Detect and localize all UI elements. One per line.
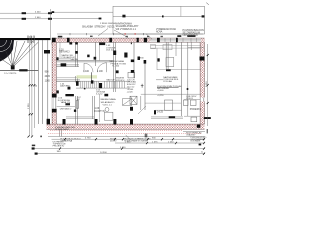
winder stair black wedge: [0, 40, 14, 62]
svg-text:+0,150: +0,150: [157, 95, 164, 97]
horizontal wall y61 left full: [57, 61, 114, 62]
black bar fixture: [166, 69, 171, 71]
svg-text:1 575: 1 575: [152, 142, 158, 144]
stair door black blob: [44, 50, 50, 54]
small dim texts bottom: [57, 138, 204, 155]
corridor post: [99, 83, 102, 88]
interior wall x76.5: [76, 43, 78, 125]
svg-text:OBYVACI: OBYVACI: [59, 51, 70, 54]
post on x145 wall: [144, 60, 147, 64]
bottom dim line 2b right: [115, 142, 205, 144]
svg-text:TL. 100: TL. 100: [112, 65, 120, 67]
small gray marks above wall: [90, 36, 163, 38]
right margin dim line: [207, 44, 209, 126]
text block under wall left: [55, 126, 75, 131]
radiator blob left wall: [56, 57, 58, 60]
small fixture rect: [151, 44, 156, 49]
bottom dim line 2: [52, 138, 206, 140]
svg-text:UMYVADLO: UMYVADLO: [60, 107, 72, 110]
dimension tick marks top-left: [22, 11, 102, 20]
start blob line 4: [35, 153, 38, 155]
horizontal wall y80.5 left: [57, 80, 81, 82]
bay fixture bottom: [104, 112, 113, 120]
stairwell wall line x47.8: [47, 40, 49, 124]
round fixture: [105, 108, 109, 112]
bottom text left light: [110, 138, 117, 142]
svg-text:NAVRHOVANA: NAVRHOVANA: [101, 98, 117, 101]
svg-text:-0,020: -0,020: [127, 91, 134, 93]
svg-text:PODESTA: PODESTA: [190, 108, 202, 111]
start blob line 3: [32, 147, 35, 149]
window sill lines above bottom wall: [66, 116, 200, 118]
svg-text:VYMENENA OKNA: VYMENENA OKNA: [156, 28, 176, 31]
outside fixtures right: [191, 100, 197, 122]
black bar right of wall: [204, 117, 211, 119]
post below hall text: [116, 70, 119, 73]
door frame vertical x91.4: [90, 72, 92, 81]
svg-text:900: 900: [45, 70, 50, 73]
furniture line room 1.01: [59, 43, 61, 59]
svg-text:ZADVERI: ZADVERI: [60, 85, 70, 88]
svg-text:2 640: 2 640: [35, 17, 41, 19]
roof divider: [180, 6, 182, 16]
left wall hatched: [52, 42, 57, 124]
short verticals below wall left: [59, 130, 61, 137]
stair label dark part: [19, 69, 27, 71]
door jamb kitchen entry: [154, 110, 156, 114]
window opening right wall: [200, 98, 205, 102]
interior wall x145: [144, 60, 146, 110]
interior line x191: [190, 43, 192, 51]
vertical line x99.7 upper: [99, 43, 101, 61]
posts above bottom wall: [63, 119, 201, 128]
interior wall x167: [166, 43, 168, 70]
extension line vertical x50: [49, 9, 51, 38]
small tick below top wall: [131, 43, 132, 45]
svg-text:4 730: 4 730: [85, 138, 91, 140]
fixture near top window: [163, 45, 172, 50]
red dotted line 1: [50, 129, 183, 131]
svg-text:ZDIVO: ZDIVO: [110, 140, 117, 142]
small vertical ticks on line y34: [70, 33, 144, 35]
ticks on left dims: [29, 84, 36, 115]
svg-text:STROPU: STROPU: [116, 80, 125, 82]
top wall hatched: [52, 38, 205, 42]
dimension line in roof: [113, 15, 204, 17]
svg-text:2020: 2020: [45, 75, 51, 78]
svg-text:14,25: 14,25: [157, 111, 164, 114]
texts above corridor band: [107, 78, 125, 82]
post on right wall: [200, 57, 205, 61]
door leaf box right: [122, 99, 131, 106]
svg-text:VIZ D.1.1: VIZ D.1.1: [103, 104, 113, 106]
room divider x157: [156, 48, 158, 70]
interior wall x134: [133, 43, 135, 79]
svg-text:VIZ VYKRES D.1.1: VIZ VYKRES D.1.1: [116, 28, 137, 31]
stair tread fan lines: [0, 41, 38, 67]
blob zadveri right: [68, 87, 71, 90]
lower mid wall x93.4: [92, 96, 94, 119]
black blob below door: [91, 80, 93, 83]
svg-text:1165: 1165: [45, 79, 51, 82]
bottom text right dark: [191, 137, 207, 143]
window band top wall right: [151, 38, 202, 42]
red specks on line y34: [125, 33, 126, 34]
corner post bottom-left: [47, 119, 50, 125]
black tick pair mid: [145, 134, 147, 138]
stair bottom line: [0, 69, 38, 71]
leader to text block: [156, 79, 163, 81]
table fixture: [166, 58, 174, 67]
shaft box left of 1.05: [128, 72, 135, 78]
interior wall x114.5: [114, 43, 116, 93]
ticks bottom dims: [59, 138, 205, 155]
corner tick top right: [206, 3, 209, 5]
corridor stair treads: [76, 81, 130, 88]
room top line lower right: [141, 93, 201, 95]
svg-text:1 100: 1 100: [97, 71, 103, 73]
ticks above bottom left: [28, 136, 34, 138]
svg-text:1 100: 1 100: [83, 71, 89, 73]
stair newel post: [11, 65, 15, 69]
svg-text:NOVA: NOVA: [156, 31, 163, 34]
svg-text:2 550: 2 550: [28, 103, 30, 109]
post below shaft: [130, 107, 133, 111]
svg-text:PROJEKTU: PROJEKTU: [53, 146, 65, 148]
bottom dim line 4: [35, 153, 205, 155]
svg-text:2 250: 2 250: [168, 142, 174, 144]
svg-text:+0,000: +0,000: [157, 90, 164, 92]
tiny rotated text right margin low: [207, 129, 208, 133]
small mark: [40, 136, 41, 138]
window opening left wall: [52, 98, 57, 109]
leader line: [114, 30, 128, 38]
dark label column mid: [127, 79, 137, 93]
stairwell wall line x38.4: [37, 40, 39, 124]
small blob below band: [84, 88, 86, 89]
interior line x176: [175, 43, 177, 57]
X-shaft box: [130, 96, 137, 104]
note text block mid-right: [156, 28, 176, 34]
door arcs hall: [84, 63, 107, 72]
bottom text mid1: [124, 138, 141, 142]
note text block far right dark: [183, 29, 205, 37]
text marks above top wall: [58, 35, 196, 37]
radiator under window right: [169, 116, 175, 118]
green highlight lintel: [77, 75, 98, 78]
posts on top wall: [52, 38, 178, 45]
svg-text:POKOJ: POKOJ: [186, 98, 193, 100]
roof outline rectangle top-right: [113, 6, 205, 34]
counter line kitchen: [155, 109, 182, 111]
svg-text:SATNA: SATNA: [71, 58, 79, 61]
right wall hatched: [200, 42, 205, 124]
svg-text:SKLADBA PO: SKLADBA PO: [101, 101, 115, 104]
horizontal wall y65.7 left: [57, 65, 80, 67]
room texts: [58, 45, 202, 114]
line x140.8: [140, 96, 142, 110]
note text block center with leader: [116, 23, 139, 31]
leader line 2: [146, 34, 152, 40]
svg-text:17x 178/270: 17x 178/270: [4, 73, 17, 75]
left dim line C: [33, 36, 35, 128]
posts on left wall: [52, 94, 57, 98]
svg-text:PODLAH: PODLAH: [163, 80, 172, 83]
thick section line top-left: [0, 38, 51, 40]
post below wall room 1.01: [69, 42, 72, 44]
vertical text column beside wall: [45, 70, 51, 82]
leader diagonal bottom mid: [126, 135, 131, 140]
bottom text mid2: [152, 142, 158, 144]
interior wall x181.5/188: [181, 43, 183, 117]
svg-text:6 150: 6 150: [206, 81, 208, 87]
black wall segment corridor bottom: [65, 94, 74, 96]
extra ticks line2: [122, 138, 174, 140]
bathroom black blob: [65, 103, 70, 105]
svg-text:18,5 m2: 18,5 m2: [106, 50, 115, 52]
svg-text:SKLADBA STRECHY VIZ D1: SKLADBA STRECHY VIZ D1: [82, 25, 115, 28]
red dotted line 2: [48, 133, 202, 135]
ticks on 2b: [146, 142, 205, 144]
svg-text:OSAZENY: OSAZENY: [186, 134, 196, 137]
kitchen fixtures right: [165, 100, 189, 110]
vertical line x99.7: [99, 94, 101, 122]
svg-text:NASTUP: NASTUP: [107, 79, 116, 82]
dark blob above line3 right: [199, 144, 202, 146]
svg-text:WC: WC: [77, 99, 81, 101]
jambs on wall x76.5: [75, 42, 78, 44]
stairwell wall line x42.6: [42, 40, 44, 124]
left dim line B: [31, 36, 33, 136]
svg-text:5 230: 5 230: [120, 147, 126, 149]
left dim line A: [29, 36, 31, 136]
line y47.5 top right: [188, 47, 205, 49]
tick strokes on section line: [28, 36, 34, 44]
svg-text:KUCHYN: KUCHYN: [95, 110, 105, 113]
bottom text mid1b: [138, 138, 151, 142]
counter top line kitchen: [145, 102, 181, 104]
white arcs inside wedge: [0, 40, 12, 52]
interior sill lines below window band: [151, 46, 202, 48]
radiator blob left wall zadveri: [57, 90, 59, 93]
leader diagonal left: [98, 29, 108, 37]
svg-text:5,2 m2: 5,2 m2: [96, 94, 103, 96]
dark blobs text top rooms: [83, 71, 103, 73]
underline text block: [157, 86, 179, 88]
svg-text:KOUPELNA: KOUPELNA: [58, 99, 70, 102]
small cross mark: [141, 84, 144, 88]
corridor band start blob: [76, 81, 79, 86]
short line under mini rows: [57, 58, 71, 60]
svg-text:1 810: 1 810: [125, 142, 131, 144]
bottom dim line 3: [32, 148, 205, 150]
dark mini rows room 1.01: [62, 54, 75, 59]
dimension text top-left: [35, 12, 117, 25]
svg-text:VYZDENE: VYZDENE: [138, 141, 148, 143]
tick in roof dim: [122, 15, 204, 18]
gray line right below balcony: [183, 130, 205, 132]
tiny text above line3 start: [32, 145, 35, 147]
svg-text:4 440: 4 440: [35, 12, 41, 14]
black wall segment y64: [61, 63, 67, 66]
WC fixture: [76, 101, 78, 109]
line y99.7 right: [184, 99, 200, 101]
interior wall x95.7: [95, 43, 97, 67]
gray line y136.6: [48, 136, 205, 138]
dark text block hall top: [110, 60, 127, 67]
door swing diagonal lower mid: [138, 106, 146, 114]
bathroom divider line: [57, 106, 76, 108]
svg-text:BOURANE: BOURANE: [191, 140, 202, 143]
horizontal line y77.8: [57, 77, 93, 79]
tick on x188 top: [187, 88, 189, 90]
bottom note text block left: [60, 138, 81, 143]
bottom right light rows: [186, 132, 202, 137]
door jamb blocks top rooms: [87, 51, 160, 62]
bottom wall hatched: [47, 124, 205, 129]
bottom text center dark 3 rows: [53, 142, 67, 148]
long thin line y69.6: [157, 69, 201, 71]
dark bar below top wall: [99, 43, 105, 46]
corner post kitchen: [104, 94, 108, 97]
posts on x134 wall: [131, 60, 134, 63]
long line over plan: [57, 33, 203, 35]
kitchen text block dark: [101, 98, 117, 106]
dimension line top-left upper: [0, 12, 113, 19]
right margin ticks: [207, 54, 209, 104]
jamb on x75 wall low: [74, 110, 76, 112]
svg-text:14 900: 14 900: [100, 152, 107, 154]
